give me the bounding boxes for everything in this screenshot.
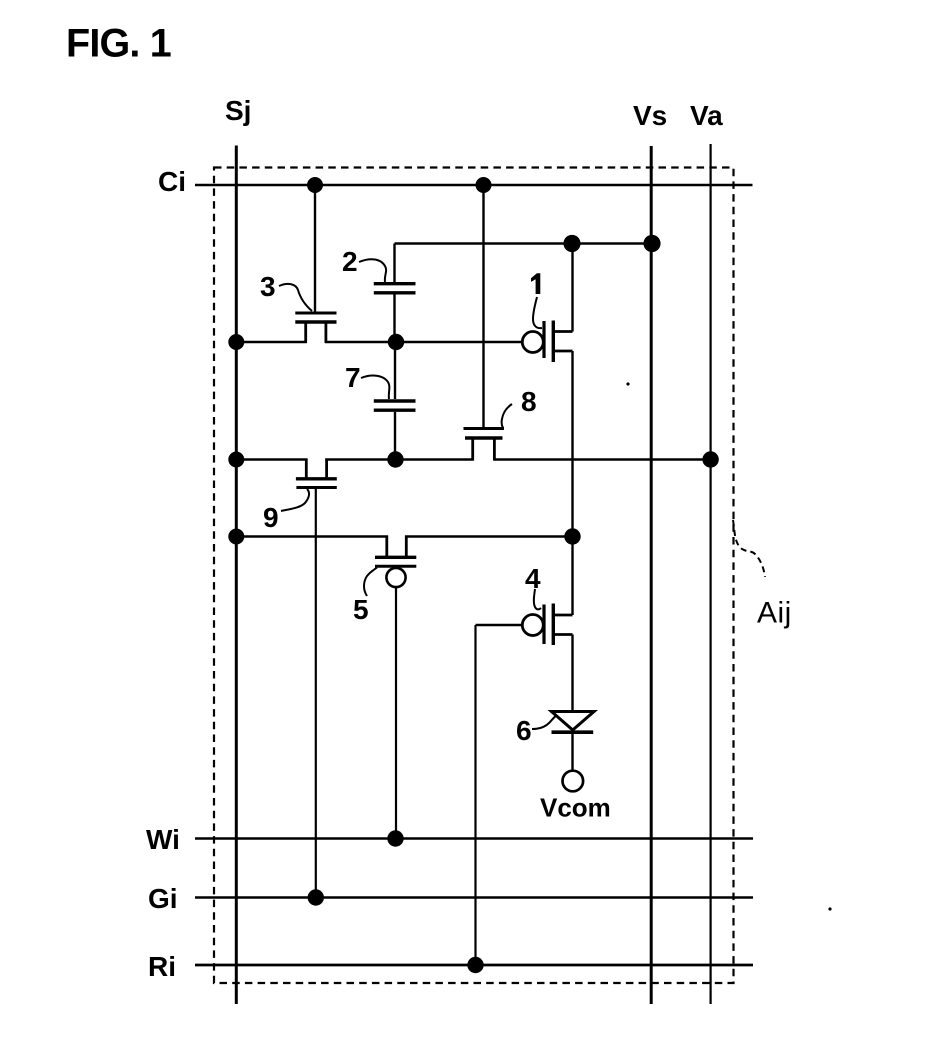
svg-text:Vcom: Vcom [540,793,611,823]
svg-text:9: 9 [263,502,279,533]
svg-text:5: 5 [353,594,369,625]
svg-text:Sj: Sj [225,95,251,126]
svg-text:Wi: Wi [146,824,180,855]
svg-text:6: 6 [516,715,532,746]
svg-text:3: 3 [260,271,276,302]
svg-text:Aij: Aij [757,597,792,630]
svg-text:Gi: Gi [148,883,178,914]
svg-text:8: 8 [521,386,537,417]
svg-text:Ri: Ri [148,951,176,982]
svg-text:Va: Va [690,100,723,131]
svg-text:FIG. 1: FIG. 1 [66,22,171,66]
svg-text:Vs: Vs [633,100,667,131]
svg-text:2: 2 [342,246,358,277]
svg-text:Ci: Ci [158,166,186,197]
svg-text:7: 7 [345,362,361,393]
svg-text:4: 4 [525,563,541,594]
